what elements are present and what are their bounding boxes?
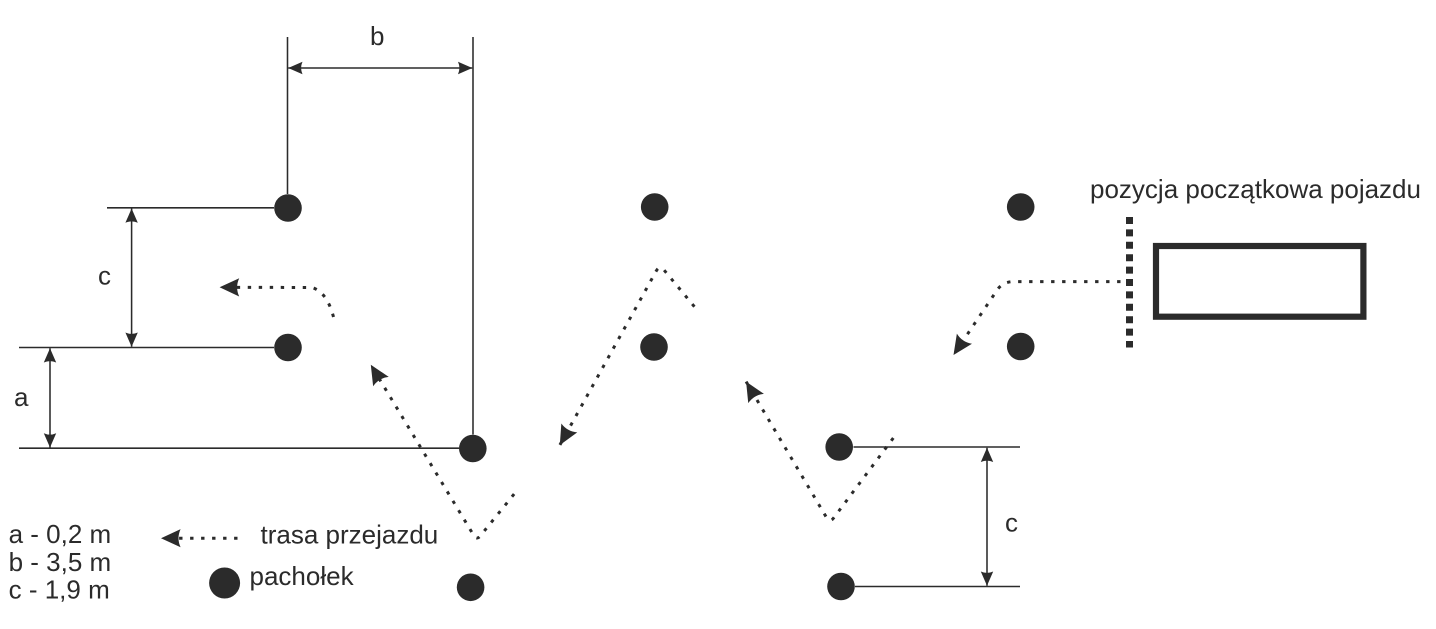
cone C3 [459, 435, 487, 463]
dimension c left: bottom line [19, 347, 274, 349]
dimension a: double arrow [49, 348, 51, 447]
cone C8 [827, 573, 855, 601]
svg-text:c - 1,9 m: c - 1,9 m [9, 575, 110, 605]
dimension b: double arrow [288, 67, 472, 69]
dimension c left: double arrow [131, 209, 133, 347]
track segment S2 (right V) [746, 382, 893, 521]
svg-text:pachołek: pachołek [250, 561, 355, 591]
track segment S5 (top-left, to left arrow) [220, 287, 334, 317]
track segment S4 (left V) [371, 365, 514, 538]
cone C2 [274, 334, 302, 362]
baseline [19, 447, 459, 449]
cone C4 [457, 574, 485, 602]
cone C1 [274, 194, 302, 222]
svg-text:trasa przejazdu: trasa przejazdu [261, 520, 439, 550]
start line (dashed) [1126, 217, 1133, 348]
track segment S3 (middle peak) [560, 268, 695, 445]
right c dimension: double arrow [986, 448, 988, 586]
svg-text:a - 0,2 m: a - 0,2 m [9, 519, 112, 549]
cone C7 [825, 433, 853, 461]
svg-text:pozycja początkowa pojazdu: pozycja początkowa pojazdu [1090, 174, 1421, 204]
cone C10 [1007, 333, 1035, 361]
vehicle start rectangle [1156, 246, 1363, 317]
cone C6 [640, 333, 668, 361]
svg-text:b - 3,5 m: b - 3,5 m [9, 547, 112, 577]
svg-text:b: b [370, 21, 384, 51]
right c dimension: top line [854, 446, 1021, 448]
cone C5 [641, 193, 669, 221]
svg-text:c: c [98, 261, 111, 291]
svg-text:a: a [14, 382, 29, 412]
legend cone [209, 568, 240, 599]
cone C9 [1007, 193, 1035, 221]
dimension b: right extension line [472, 37, 474, 435]
right c dimension: bottom line [855, 586, 1020, 588]
svg-text:c: c [1005, 508, 1018, 538]
track segment S1 (from start, curving down-left) [954, 282, 1121, 355]
dimension c left: top line [107, 207, 274, 209]
legend arrow [161, 537, 238, 540]
dimension b: left extension line [287, 37, 289, 194]
